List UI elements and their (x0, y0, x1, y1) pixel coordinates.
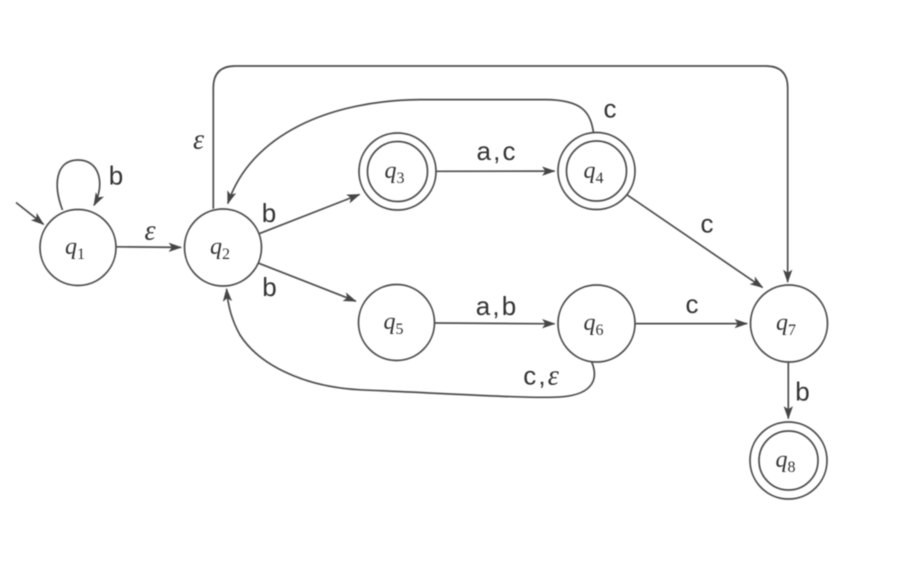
svg-text:c: c (701, 209, 714, 239)
svg-text:ε: ε (193, 125, 204, 156)
svg-text:c: c (686, 289, 699, 319)
svg-text:ε: ε (144, 216, 155, 247)
svg-text:c: c (604, 94, 617, 124)
svg-text:a , c: a , c (476, 136, 515, 166)
svg-text:b: b (262, 272, 276, 302)
svg-text:b: b (795, 377, 809, 407)
svg-text:c , ε: c , ε (523, 361, 559, 392)
svg-text:a , b: a , b (476, 291, 517, 321)
svg-text:b: b (262, 198, 276, 228)
svg-text:b: b (109, 161, 123, 191)
